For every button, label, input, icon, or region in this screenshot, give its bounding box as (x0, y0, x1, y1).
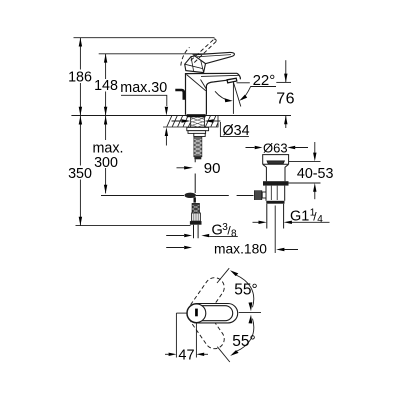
svg-text:max.180: max.180 (214, 242, 267, 257)
wire left dimension line x=80.4 (186/350) (79, 38, 81, 226)
arrow 148 bottom down (104, 107, 107, 116)
braided hose end (dark) (192, 204, 199, 214)
dashed raised lever (181, 39, 216, 66)
dashed handle rotated +55° (down) (191, 311, 229, 353)
arrow 350 bottom down (79, 217, 82, 226)
svg-text:max.30: max.30 (120, 80, 167, 96)
svg-text:40-53: 40-53 (297, 166, 334, 182)
dashed handle rotated -55° (up) (191, 274, 229, 316)
arrow Ø34 left (182, 119, 191, 122)
label 22° + leader lines (253, 72, 276, 89)
svg-text:55°: 55° (234, 282, 257, 299)
rim box (263, 155, 289, 165)
arrow 186 bottom down (79, 107, 82, 116)
inner verticals (271, 186, 277, 200)
ball joint (184, 193, 196, 198)
wire deck top line (71, 115, 291, 117)
wire left dimension line x=105.6 (148/max300) (105, 54, 107, 194)
22° arcs with arrows (215, 91, 230, 100)
label 148 (93, 78, 118, 94)
wire bottom reference line 350 (76, 225, 191, 227)
faucet deck (counter) with hatching (163, 116, 218, 128)
max.180 dimension (166, 247, 184, 249)
handle inner stadium (202, 306, 233, 321)
arrow 148 top up (104, 54, 107, 63)
svg-text:300: 300 (94, 155, 118, 171)
label G3/8 (212, 222, 238, 240)
hose nut (dark) (190, 221, 202, 225)
22° construction: vertical plumb line (232, 82, 234, 114)
label Ø34 callout (220, 122, 249, 137)
svg-text:Ø34: Ø34 (223, 123, 250, 139)
label max.30 + leader (120, 80, 167, 96)
label 350 (67, 166, 93, 182)
svg-text:90: 90 (204, 160, 221, 177)
arrow 350 top up (79, 116, 82, 125)
threaded rod (hatched) (194, 137, 202, 160)
svg-text:148: 148 (94, 78, 118, 94)
upper 55° axis extension line (217, 268, 229, 283)
pivot tick (195, 309, 198, 317)
faucet body outline (185, 73, 241, 115)
lower 55° arc with arrows (236, 319, 254, 352)
svg-text:47: 47 (178, 348, 194, 364)
wire max30 lower tail (165, 136, 167, 146)
wire reference line 148 (99, 53, 229, 55)
hose collar (ribbed) (192, 213, 201, 221)
arrow max30 bottom up (165, 127, 168, 136)
flange line and taper (263, 163, 289, 165)
arrow Ø34 right (205, 119, 214, 122)
horizontal pop-up rod (101, 195, 184, 197)
faucet inner V contour lines (187, 75, 240, 91)
drain: Ø63 dimension (246, 147, 255, 149)
arrowheads group (79, 38, 168, 226)
wire top reference line 186 (74, 37, 215, 39)
drain adjuster knob (knurled) (254, 190, 266, 200)
dimension 40-53 (289, 160, 321, 162)
label 55° upper (234, 282, 257, 299)
svg-text:186: 186 (68, 69, 92, 85)
svg-text:8: 8 (231, 229, 237, 240)
label G1 1/4 with leader (290, 208, 323, 225)
G3/8 dimension arrows (166, 235, 184, 237)
lower body (266, 186, 285, 201)
drain tailpipe (G1 1/4 thread) (267, 204, 284, 229)
pull rod below deck: washer and nut (187, 127, 209, 136)
centerline right (239, 312, 261, 314)
faucet aerator (227, 78, 237, 83)
22° stream line (233, 82, 240, 106)
label 186 (68, 69, 93, 85)
dimension 47 (165, 353, 169, 355)
o-ring dark band (263, 181, 289, 185)
arrow 186 top up (79, 38, 82, 47)
handle outer stadium (white fill hides dashes underneath) (187, 304, 238, 323)
label 90 (204, 160, 221, 177)
pivot hub circle (187, 304, 206, 323)
dimension 76 (276, 81, 291, 83)
svg-text:76: 76 (276, 91, 295, 108)
lever blade (solid) (194, 52, 235, 63)
G3/8 nipple tube (194, 225, 199, 239)
arrow max30 top down (165, 107, 168, 116)
arrow 90 leader (177, 167, 185, 169)
lever inner line (196, 55, 231, 57)
upper 55° arc with arrows (236, 275, 254, 307)
leader left + 47 extension (176, 312, 187, 314)
faucet shank through deck (threaded, cross-hatched) (191, 116, 205, 128)
svg-text:350: 350 (68, 166, 92, 182)
drain pop-up waste body (263, 155, 289, 204)
arrow max300 top up (104, 116, 107, 125)
wire pull rod (194, 159, 196, 193)
pull-rod knob on body left (175, 90, 184, 100)
label 55° lower (232, 333, 255, 350)
faucet base gasket (187, 114, 206, 117)
label max.300 (91, 140, 123, 171)
svg-text:55°: 55° (232, 333, 255, 350)
svg-text:4: 4 (317, 214, 323, 225)
lower 55° axis extension line (217, 347, 230, 362)
lever hub (faceted) (185, 55, 206, 72)
plug disc dark (267, 161, 284, 164)
arrow max300 bottom down (104, 185, 107, 194)
svg-text:Ø63: Ø63 (263, 140, 288, 155)
